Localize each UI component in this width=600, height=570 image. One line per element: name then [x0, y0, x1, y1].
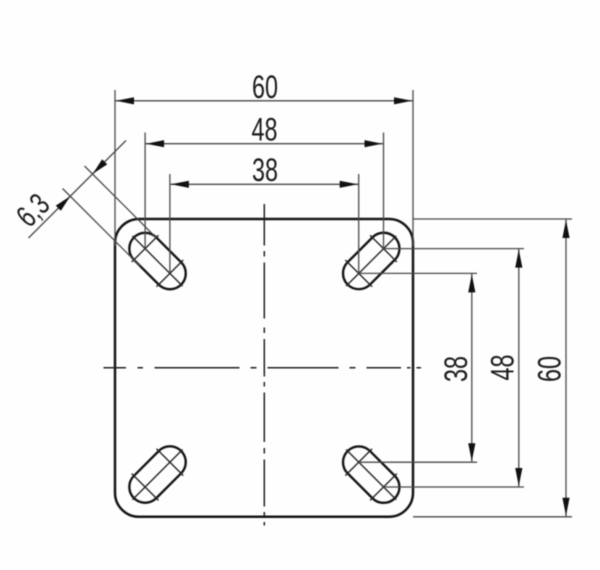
slot BR cross arm at outer end	[370, 474, 397, 501]
extension line right for dim 60 top	[412, 90, 414, 246]
dimension line 38 right	[471, 273, 473, 462]
extension line bottom for dim 60 right	[413, 516, 572, 518]
slot BR axis centerline	[346, 450, 396, 500]
svg-text:60: 60	[252, 69, 278, 104]
slot TR axis centerline	[346, 236, 396, 286]
slot TR cross arm at outer end	[370, 235, 397, 262]
dimension line 60 top	[115, 100, 413, 102]
arrow right of dim 60 top	[394, 97, 412, 104]
extension line bottom for dim 38 right	[359, 461, 477, 463]
dimension line 6.3 (perpendicular to slot)	[29, 141, 127, 239]
arrow top of dim 38 right	[468, 274, 475, 292]
plate outline (60x60 mounting plate, rounded corners)	[115, 219, 413, 517]
extension line top for dim 48 right	[384, 248, 525, 250]
slot TL cross arm at outer end	[132, 235, 159, 262]
extension line bottom for dim 48 right	[384, 486, 525, 488]
arrow at B for dim 6.3 (outside, pointing inward NE)	[56, 196, 71, 211]
vertical centerline	[263, 204, 265, 526]
dimension line 38 top	[170, 183, 359, 185]
dimension line 60 right	[565, 219, 567, 517]
arrow bottom of dim 60 right	[562, 498, 569, 516]
svg-text:38: 38	[438, 356, 473, 382]
slot hole top-right	[336, 226, 406, 296]
slot BL axis centerline	[132, 450, 182, 500]
arrow left of dim 38 top	[171, 181, 189, 188]
arrow top of dim 48 right	[515, 250, 522, 268]
svg-text:38: 38	[252, 152, 278, 187]
svg-text:48: 48	[485, 355, 520, 381]
extension line left for dim 60 top	[114, 90, 116, 246]
slot BL cross arm at inner end	[157, 449, 184, 476]
slot hole bottom-left	[123, 440, 193, 510]
extension line left for dim 38 top	[169, 174, 171, 273]
arrow right of dim 38 top	[340, 181, 358, 188]
extension line top for dim 60 right	[413, 218, 572, 220]
extension line B for slot width 6.3 (SW slot edge extended)	[63, 189, 141, 267]
extension line right for dim 38 top	[358, 174, 360, 273]
slot BR cross arm at inner end	[345, 449, 372, 476]
slot BL cross arm at outer end	[132, 474, 159, 501]
arrow left of dim 60 top	[116, 97, 134, 104]
arrow right of dim 48 top	[365, 140, 383, 147]
arrow bottom of dim 38 right	[468, 443, 475, 461]
arrow at A for dim 6.3 (outside, pointing inward SW)	[93, 159, 108, 174]
extension line top for dim 38 right	[359, 272, 477, 274]
svg-text:60: 60	[532, 356, 567, 382]
dimension line 48 top	[145, 143, 383, 145]
slot hole top-left	[123, 226, 193, 296]
horizontal centerline	[104, 367, 422, 369]
slot TL cross arm at inner end	[157, 260, 184, 287]
slot TL axis centerline	[132, 236, 182, 286]
extension line right for dim 48 top	[383, 133, 385, 249]
svg-text:48: 48	[252, 112, 278, 147]
extension line A for slot width 6.3 (NE slot edge extended)	[85, 166, 157, 238]
arrow bottom of dim 48 right	[515, 468, 522, 486]
dimension line 48 right	[518, 249, 520, 487]
slot hole bottom-right	[336, 440, 406, 510]
arrow top of dim 60 right	[562, 220, 569, 238]
extension line left for dim 48 top	[144, 133, 146, 249]
slot TR cross arm at inner end	[345, 260, 372, 287]
arrow left of dim 48 top	[146, 140, 164, 147]
